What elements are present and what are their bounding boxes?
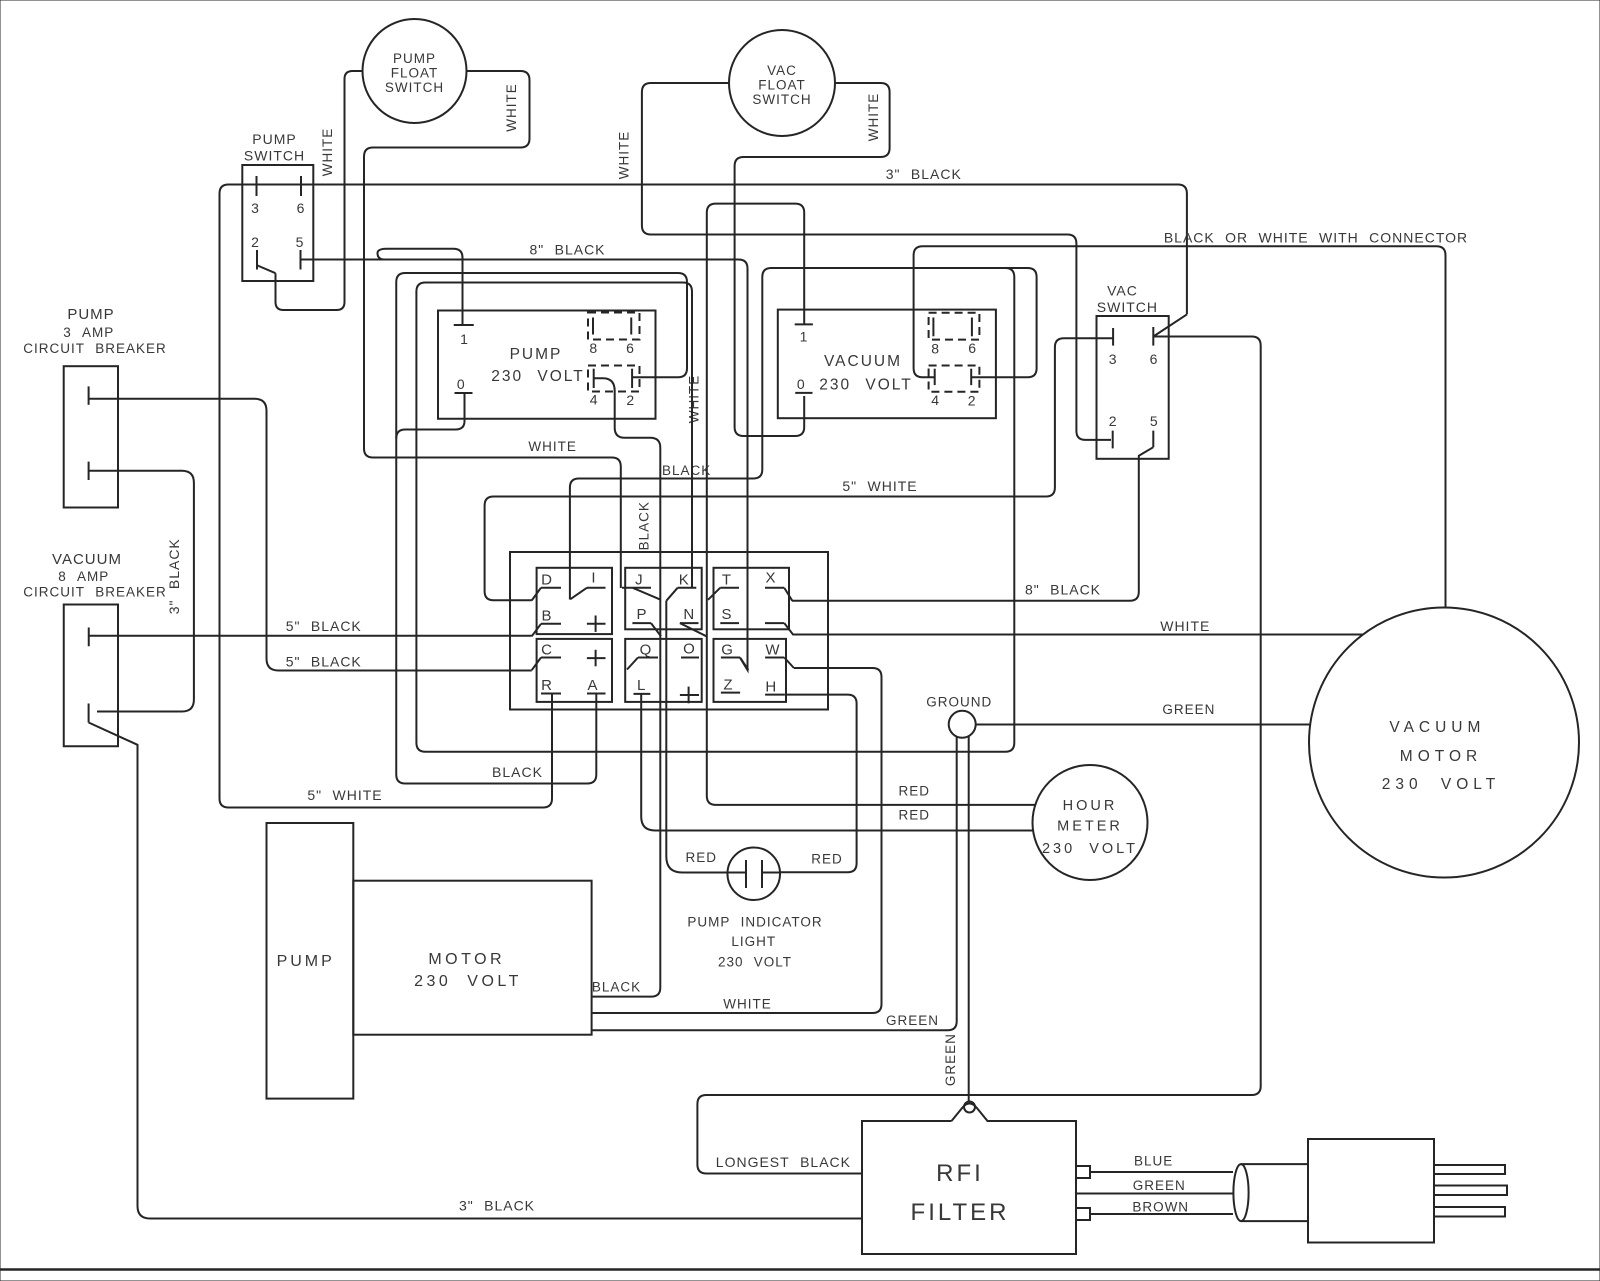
svg-text:X: X bbox=[765, 570, 776, 587]
svg-text:BLACK: BLACK bbox=[662, 463, 711, 478]
svg-text:WHITE: WHITE bbox=[723, 997, 772, 1012]
wire vac-switch-5 blade to 8in BLACK to X blade bbox=[792, 447, 1153, 601]
svg-text:WHITE: WHITE bbox=[687, 375, 702, 424]
svg-text:LIGHT: LIGHT bbox=[731, 934, 776, 949]
wire vacuum-2 to I blade / black net bbox=[570, 268, 1037, 600]
plug prong 1 bbox=[1434, 1165, 1505, 1174]
vacuum breaker bottom terminal bbox=[88, 704, 90, 723]
svg-text:6: 6 bbox=[297, 200, 306, 216]
svg-text:8: 8 bbox=[589, 340, 598, 356]
vac switch pin 2 bbox=[1112, 431, 1114, 449]
svg-text:B: B bbox=[541, 608, 552, 625]
wire BLACK OR WHITE WITH CONNECTOR vacuum-4 to vacuum motor bbox=[914, 246, 1446, 607]
svg-text:GREEN: GREEN bbox=[1162, 702, 1215, 717]
svg-text:W: W bbox=[765, 642, 780, 659]
svg-text:RFI: RFI bbox=[936, 1160, 984, 1187]
pump switch pin 6 bbox=[300, 176, 302, 196]
svg-text:3" BLACK: 3" BLACK bbox=[886, 166, 962, 182]
wire GREEN (cord) bbox=[1076, 1193, 1233, 1195]
svg-text:Q: Q bbox=[640, 642, 653, 659]
cross mark (L box) bbox=[680, 694, 699, 696]
svg-text:FLOAT: FLOAT bbox=[391, 66, 439, 81]
svg-text:VACUUM: VACUUM bbox=[1389, 719, 1485, 736]
vac switch S2 box bbox=[1097, 316, 1169, 459]
wire ground to vacuum motor GREEN bbox=[976, 724, 1311, 726]
terminal block outer box bbox=[510, 552, 828, 710]
wire K bar to black net bridge bbox=[416, 268, 1014, 752]
pump switch pin 2 bbox=[256, 250, 258, 270]
svg-text:RED: RED bbox=[685, 850, 717, 865]
wire pump-4 to motor black vertical bbox=[592, 378, 660, 996]
svg-text:WHITE: WHITE bbox=[528, 439, 577, 454]
svg-text:WHITE: WHITE bbox=[617, 131, 632, 180]
svg-text:RED: RED bbox=[898, 808, 930, 823]
svg-text:2: 2 bbox=[1109, 413, 1118, 429]
svg-text:WHITE: WHITE bbox=[866, 93, 881, 142]
svg-text:Z: Z bbox=[723, 677, 733, 694]
svg-text:HOUR: HOUR bbox=[1063, 798, 1118, 814]
vacuum motor M2 bbox=[1309, 608, 1579, 878]
vac float switch FS2 bbox=[729, 30, 835, 136]
svg-text:MOTOR: MOTOR bbox=[428, 951, 505, 968]
svg-text:LONGEST BLACK: LONGEST BLACK bbox=[716, 1154, 851, 1170]
svg-text:SWITCH: SWITCH bbox=[385, 80, 444, 95]
svg-text:PUMP: PUMP bbox=[510, 346, 563, 363]
RFI terminal upper bbox=[1076, 1166, 1090, 1178]
svg-text:GREEN: GREEN bbox=[1133, 1178, 1186, 1193]
wire pump-0 branch join bbox=[396, 393, 464, 439]
svg-text:FLOAT: FLOAT bbox=[758, 78, 806, 93]
wire 5in WHITE vac-switch-3 to D blade bbox=[485, 338, 1114, 600]
wire vacuum-1 to N blade and RED to hour meter (WHITE) bbox=[707, 204, 1035, 805]
svg-text:METER: METER bbox=[1057, 819, 1123, 835]
wire pump-float-left to pump-switch pin2 blade (WHITE) bbox=[276, 71, 364, 310]
svg-text:5" WHITE: 5" WHITE bbox=[842, 478, 917, 494]
svg-text:A: A bbox=[587, 677, 598, 694]
svg-text:3: 3 bbox=[251, 200, 260, 216]
svg-text:R: R bbox=[541, 677, 553, 694]
svg-text:230 VOLT: 230 VOLT bbox=[819, 377, 913, 394]
svg-text:0: 0 bbox=[457, 376, 466, 392]
svg-text:PUMP INDICATOR: PUMP INDICATOR bbox=[687, 915, 822, 930]
wire K blade to pump indicator light RED bbox=[666, 601, 727, 873]
svg-text:SWITCH: SWITCH bbox=[752, 92, 811, 107]
pump breaker bottom terminal bbox=[88, 462, 90, 480]
wire 5in BLACK pump-breaker-top to C blade bbox=[89, 399, 532, 671]
vacuum circuit breaker CB2 box bbox=[64, 605, 118, 747]
svg-text:CIRCUIT BREAKER: CIRCUIT BREAKER bbox=[23, 585, 167, 600]
wire pump-switch pins3-6 line / 3in BLACK to vac-switch-6 blade; and 5in WHITE to R bbox=[220, 185, 1187, 808]
power cord sheath bbox=[1233, 1164, 1248, 1221]
terminal block sub-box Q-O-L bbox=[625, 639, 702, 702]
wire vac-switch-6 to LONGEST BLACK to RFI bbox=[697, 337, 1260, 1174]
cross mark (D box) bbox=[587, 623, 606, 625]
wire vac-float-right to vacuum-0 (WHITE) bbox=[735, 83, 890, 436]
svg-text:8" BLACK: 8" BLACK bbox=[529, 242, 605, 258]
wire BROWN bbox=[1090, 1213, 1233, 1215]
svg-text:GREEN: GREEN bbox=[943, 1033, 958, 1086]
svg-text:T: T bbox=[722, 572, 732, 589]
contact (unlabeled, to vacuum motor white) bbox=[765, 622, 784, 624]
svg-text:4: 4 bbox=[931, 392, 940, 408]
pump box bbox=[267, 823, 354, 1099]
plug prong 2 bbox=[1434, 1186, 1507, 1196]
svg-text:VAC: VAC bbox=[767, 63, 797, 78]
svg-text:3: 3 bbox=[1109, 351, 1118, 367]
svg-text:PUMP: PUMP bbox=[252, 131, 296, 147]
svg-text:K: K bbox=[679, 572, 690, 589]
svg-text:4: 4 bbox=[590, 392, 599, 408]
svg-text:N: N bbox=[683, 606, 695, 623]
svg-text:P: P bbox=[636, 606, 647, 623]
pump 230 volt relay box bbox=[438, 311, 656, 419]
pump dashed block 4-2 bbox=[588, 366, 640, 392]
svg-text:0: 0 bbox=[797, 376, 806, 392]
svg-text:J: J bbox=[635, 572, 644, 589]
svg-text:SWITCH: SWITCH bbox=[1097, 299, 1158, 315]
svg-text:5" WHITE: 5" WHITE bbox=[307, 787, 382, 803]
svg-text:5" BLACK: 5" BLACK bbox=[286, 654, 362, 670]
terminal block sub-box C-R-A bbox=[537, 639, 612, 702]
svg-text:5" BLACK: 5" BLACK bbox=[286, 618, 362, 634]
wire 8in BLACK pump-switch-5 to G blade bbox=[301, 260, 748, 671]
svg-text:GREEN: GREEN bbox=[886, 1013, 939, 1028]
svg-text:BLACK: BLACK bbox=[637, 501, 652, 550]
wire BLUE bbox=[1090, 1171, 1233, 1173]
svg-text:230 VOLT: 230 VOLT bbox=[414, 973, 522, 990]
cross mark (C box) bbox=[587, 657, 606, 659]
vacuum dashed block 4-2 bbox=[929, 366, 980, 392]
terminal block sub-box T-X-S bbox=[714, 568, 790, 630]
wire vacuum-breaker blade to 3in BLACK bottom line to RFI bbox=[89, 723, 862, 1219]
wire ground to RFI grommet GREEN bbox=[968, 736, 970, 1101]
svg-text:5: 5 bbox=[296, 234, 305, 250]
ground node bbox=[949, 711, 976, 738]
svg-text:GROUND: GROUND bbox=[926, 694, 992, 709]
pump indicator light DS1 bbox=[727, 847, 780, 900]
wire pump-0 pump-2 to A bar (BLACK net) bbox=[396, 273, 687, 784]
vac switch pin 5 bbox=[1152, 431, 1154, 448]
svg-text:6: 6 bbox=[626, 340, 635, 356]
wire pump-1 to 8in BLACK line bbox=[378, 249, 463, 325]
svg-text:8 AMP: 8 AMP bbox=[58, 569, 109, 584]
svg-text:BLUE: BLUE bbox=[1134, 1153, 1173, 1168]
pump terminal 1 bbox=[454, 324, 474, 326]
svg-text:S: S bbox=[721, 606, 732, 623]
svg-text:I: I bbox=[591, 570, 596, 587]
svg-text:3" BLACK: 3" BLACK bbox=[166, 538, 182, 614]
pump breaker top terminal bbox=[88, 386, 90, 404]
svg-text:FILTER: FILTER bbox=[911, 1199, 1010, 1226]
svg-text:6: 6 bbox=[968, 340, 977, 356]
pump switch S1 box bbox=[242, 165, 313, 281]
svg-text:3" BLACK: 3" BLACK bbox=[459, 1198, 535, 1214]
svg-text:PUMP: PUMP bbox=[393, 51, 436, 66]
svg-text:VAC: VAC bbox=[1107, 282, 1138, 298]
svg-text:2: 2 bbox=[251, 234, 260, 250]
terminal block sub-box G-W-Z-H bbox=[714, 639, 787, 702]
svg-text:RED: RED bbox=[898, 784, 930, 799]
vacuum terminal 1 bbox=[795, 323, 813, 325]
svg-text:BLACK: BLACK bbox=[592, 980, 641, 995]
svg-text:WHITE: WHITE bbox=[1160, 618, 1210, 634]
motor 230 volt box bbox=[353, 881, 591, 1035]
svg-text:RED: RED bbox=[811, 852, 843, 867]
vac switch pin 6 bbox=[1152, 327, 1154, 346]
RFI filter box bbox=[862, 1104, 1076, 1255]
vacuum breaker top terminal bbox=[88, 628, 90, 647]
wire 3in BLACK pump-breaker-bottom to vacuum-breaker-bottom bbox=[89, 471, 194, 712]
svg-text:PUMP: PUMP bbox=[277, 953, 335, 970]
svg-text:WHITE: WHITE bbox=[504, 83, 519, 132]
svg-text:MOTOR: MOTOR bbox=[1400, 748, 1482, 765]
svg-text:1: 1 bbox=[800, 329, 809, 345]
vacuum 230 volt relay box bbox=[778, 310, 996, 419]
wire 5in BLACK vacuum-breaker-top to B blade bbox=[89, 635, 532, 637]
wire vac-float-left to vac-switch pin2 (WHITE) bbox=[642, 83, 1111, 440]
svg-text:230 VOLT: 230 VOLT bbox=[1042, 841, 1138, 857]
svg-text:D: D bbox=[541, 572, 553, 589]
pump float switch FS1 bbox=[363, 19, 467, 123]
svg-text:BROWN: BROWN bbox=[1132, 1199, 1189, 1214]
wire L to hour meter RED bbox=[641, 694, 1033, 831]
svg-text:G: G bbox=[721, 642, 734, 659]
vacuum dashed block 8-6 bbox=[929, 313, 980, 340]
pump circuit breaker CB1 box bbox=[64, 366, 118, 507]
svg-text:O: O bbox=[683, 640, 696, 657]
svg-text:BLACK: BLACK bbox=[492, 764, 543, 780]
svg-text:L: L bbox=[637, 677, 646, 694]
svg-text:BLACK OR WHITE WITH CONNECTOR: BLACK OR WHITE WITH CONNECTOR bbox=[1164, 230, 1468, 246]
svg-text:3 AMP: 3 AMP bbox=[63, 325, 114, 340]
vac switch pin 3 bbox=[1112, 328, 1114, 346]
terminal block sub-box D-I-B bbox=[537, 568, 612, 634]
plug prong 3 bbox=[1434, 1207, 1505, 1217]
svg-text:SWITCH: SWITCH bbox=[244, 148, 305, 164]
wire H to pump indicator light RED bbox=[780, 695, 856, 873]
terminal block sub-box J-K-P-N bbox=[625, 568, 702, 630]
svg-text:CIRCUIT BREAKER: CIRCUIT BREAKER bbox=[23, 341, 167, 356]
svg-text:C: C bbox=[541, 642, 553, 659]
svg-text:PUMP: PUMP bbox=[67, 306, 114, 323]
scan edge line bbox=[0, 1268, 1600, 1271]
RFI terminal lower bbox=[1076, 1208, 1090, 1220]
svg-text:6: 6 bbox=[1150, 351, 1159, 367]
plug body bbox=[1308, 1139, 1434, 1243]
svg-text:WHITE: WHITE bbox=[320, 128, 335, 177]
svg-text:2: 2 bbox=[626, 392, 635, 408]
pump dashed block 8-6 bbox=[588, 313, 640, 340]
svg-text:8: 8 bbox=[931, 341, 940, 357]
pump switch pin 3 bbox=[256, 176, 258, 196]
svg-text:2: 2 bbox=[968, 393, 977, 409]
svg-text:230 VOLT: 230 VOLT bbox=[491, 368, 585, 385]
svg-text:8" BLACK: 8" BLACK bbox=[1025, 582, 1101, 598]
svg-text:H: H bbox=[765, 679, 777, 696]
svg-text:5: 5 bbox=[1150, 413, 1159, 429]
svg-text:1: 1 bbox=[460, 331, 469, 347]
svg-text:230 VOLT: 230 VOLT bbox=[1382, 776, 1501, 793]
hour meter M1 bbox=[1033, 765, 1148, 880]
wire W blade to motor WHITE bbox=[592, 668, 882, 1013]
wire motor GREEN to ground bbox=[592, 737, 957, 1031]
svg-text:230 VOLT: 230 VOLT bbox=[718, 955, 792, 970]
pump switch pin 5 bbox=[300, 250, 302, 270]
svg-text:VACUUM: VACUUM bbox=[824, 353, 902, 370]
vacuum terminal 0 bbox=[795, 392, 812, 394]
svg-text:VACUUM: VACUUM bbox=[52, 551, 122, 568]
pump terminal 0 bbox=[455, 392, 473, 394]
wire pump-float-right to J bar (WHITE) bbox=[364, 71, 621, 588]
